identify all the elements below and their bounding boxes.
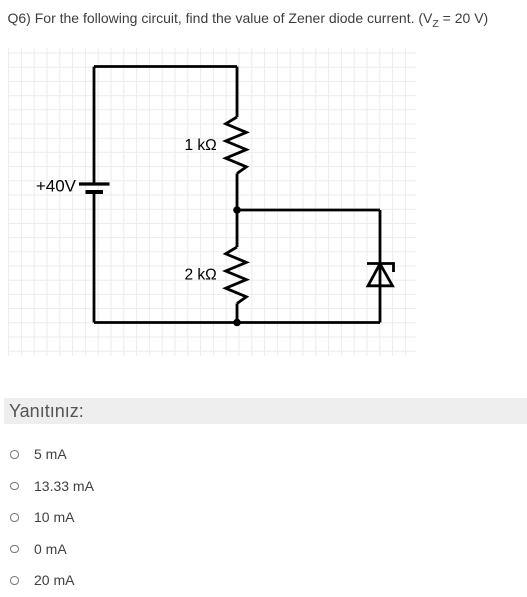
svg-text:1 kΩ: 1 kΩ	[185, 137, 217, 154]
wire: R1 to node	[236, 174, 239, 211]
svg-text:2 kΩ: 2 kΩ	[185, 267, 217, 284]
node A	[233, 206, 241, 214]
battery V1	[79, 184, 110, 192]
wire: left lower	[93, 193, 96, 323]
wire: middle upper stub	[236, 67, 239, 118]
node B	[233, 319, 241, 327]
wire: R2 to bottom	[236, 304, 239, 323]
wire: top	[94, 65, 237, 68]
wire: right upper	[379, 210, 382, 323]
wire: left upper	[93, 67, 96, 184]
circuit schematic	[0, 40, 440, 370]
wire: node to 2k	[236, 210, 239, 247]
resistor R2 2k	[226, 247, 247, 304]
resistor R1 1k	[226, 117, 247, 174]
wire: node to right	[237, 209, 380, 212]
zener diode D1	[367, 264, 394, 286]
svg-text:+40V: +40V	[36, 177, 77, 196]
wire: bottom	[94, 321, 380, 324]
